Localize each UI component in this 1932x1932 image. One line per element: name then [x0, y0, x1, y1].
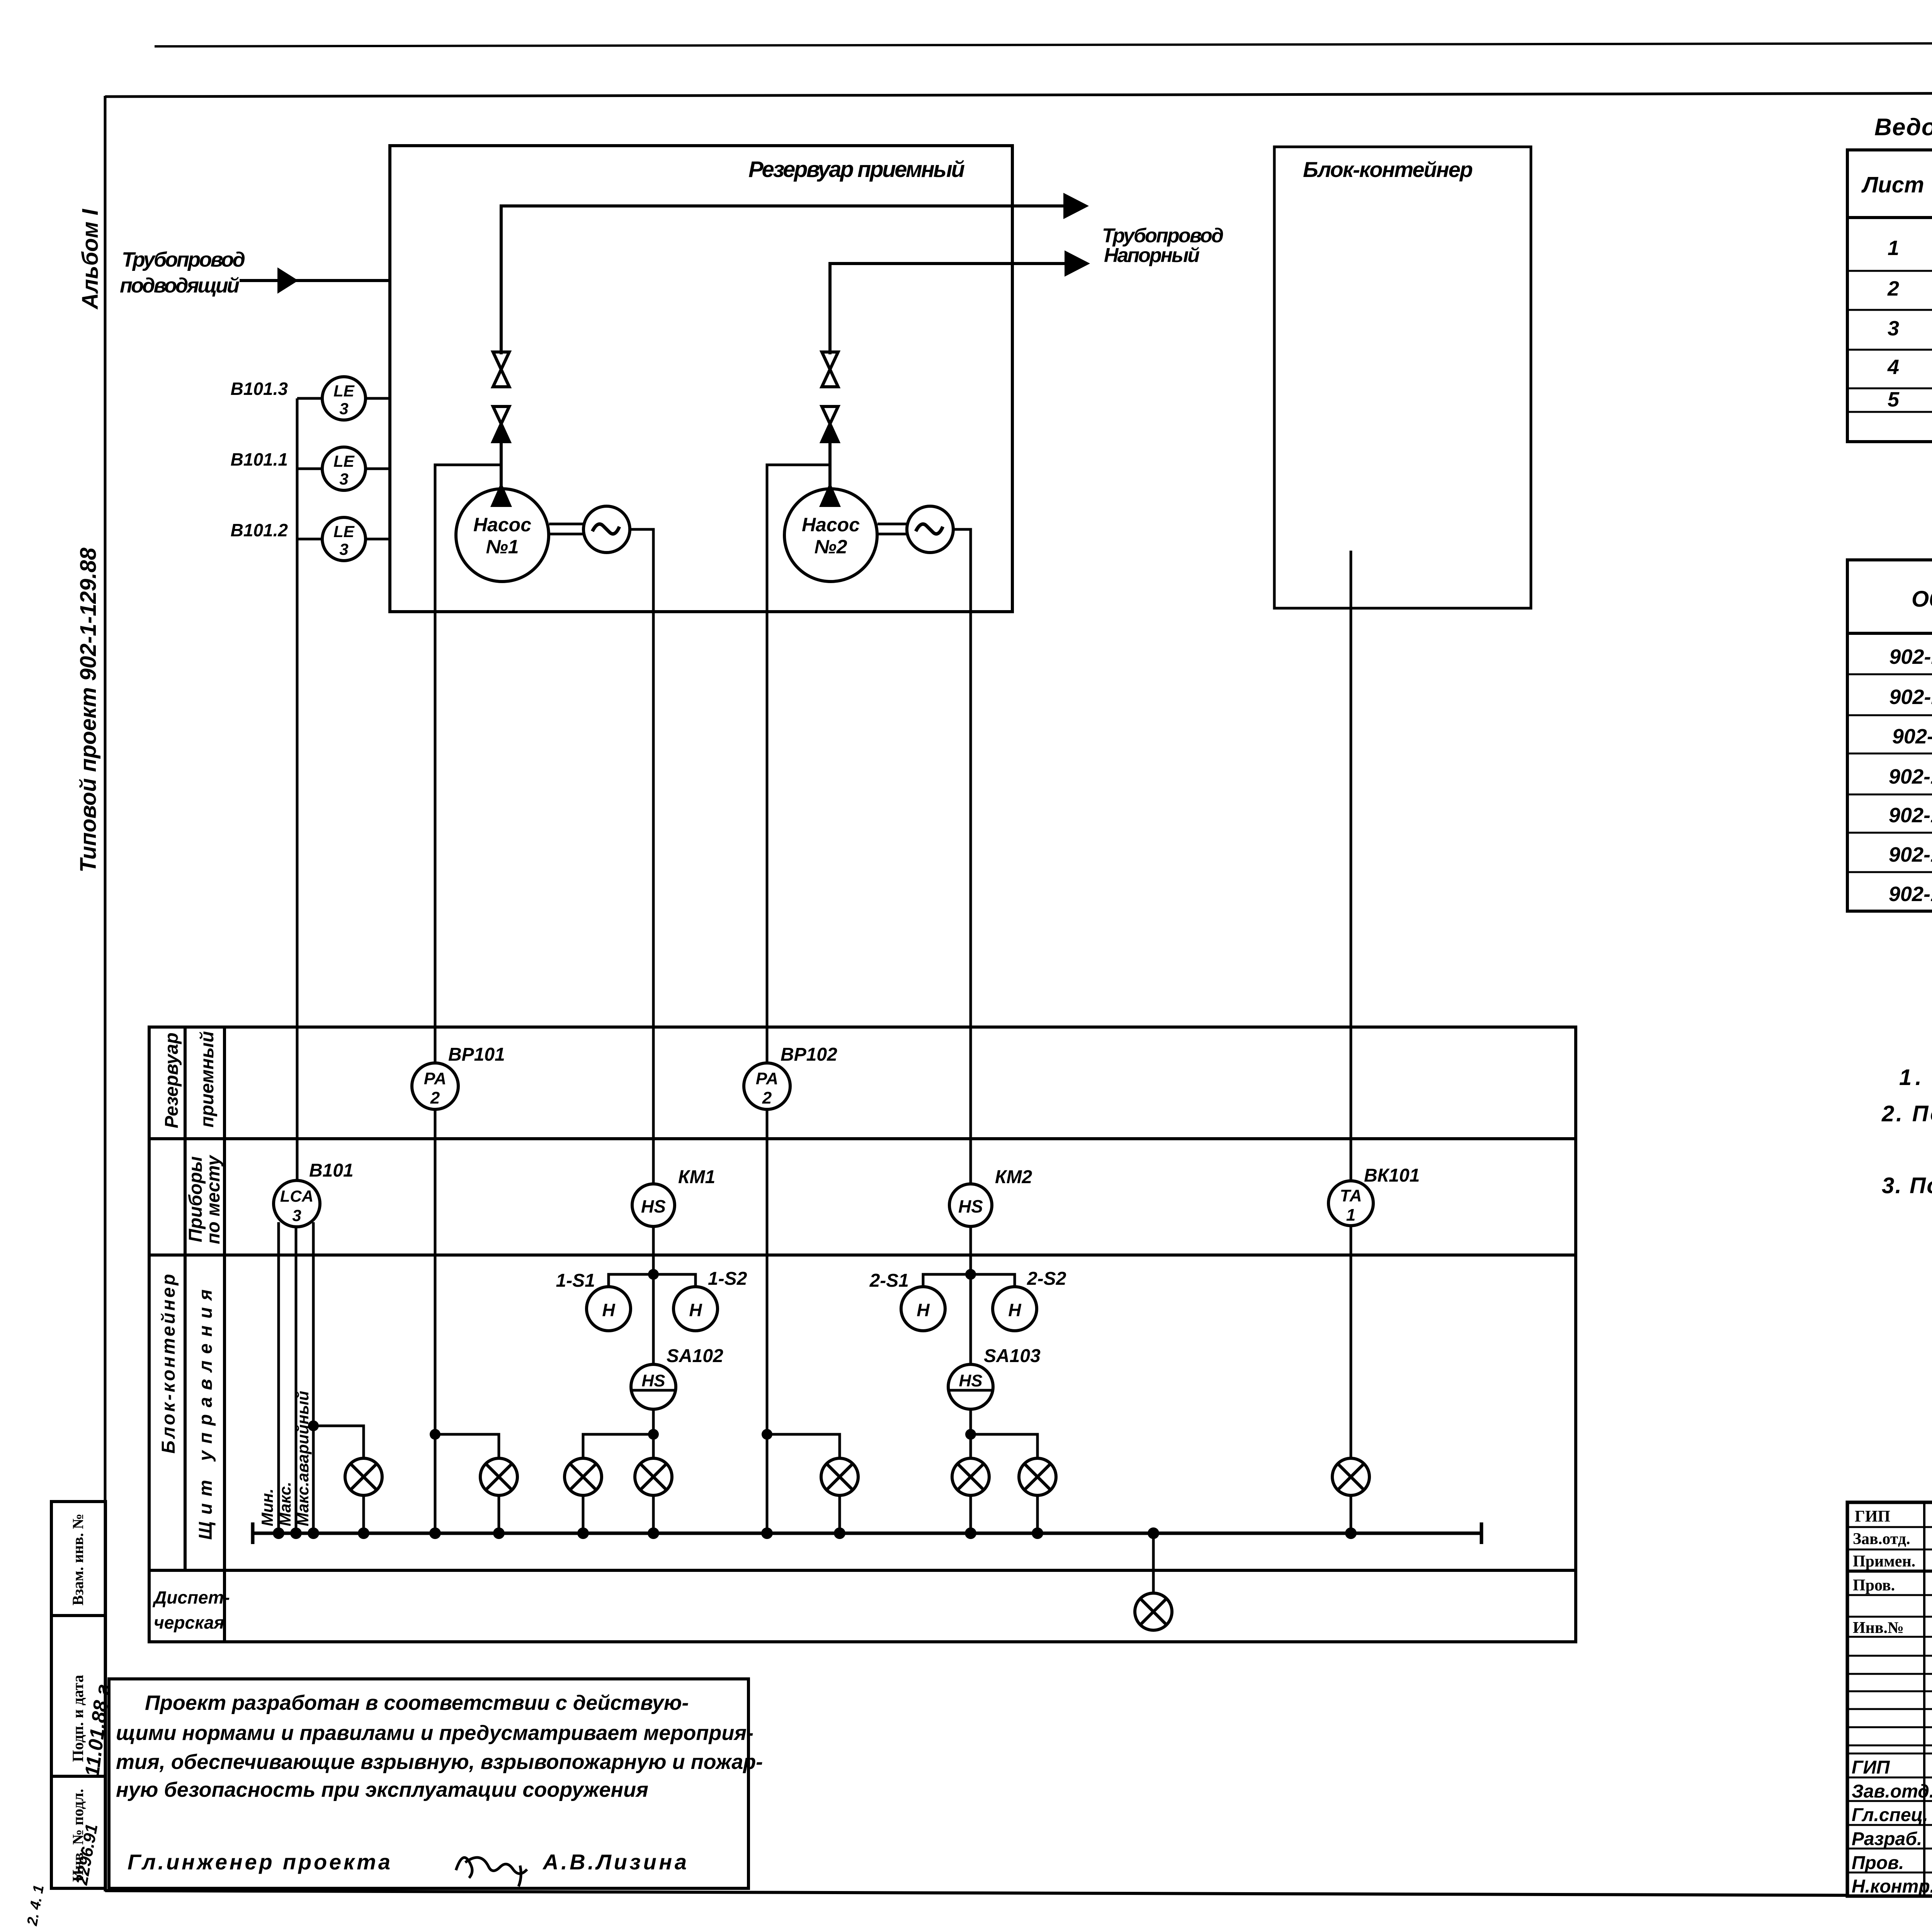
pump 2 inlet arrowhead [819, 482, 841, 507]
lamp 5 branch wire [767, 1434, 840, 1458]
svg-text:черская: черская [154, 1612, 224, 1633]
junction on wire Макс.аварийный [308, 1420, 319, 1431]
svg-text:Напорный: Напорный [1104, 244, 1200, 267]
svg-text:SA102: SA102 [667, 1346, 723, 1366]
svg-text:LCA: LCA [280, 1187, 313, 1205]
button H 2-S1 [901, 1287, 945, 1331]
lamp 8 [1332, 1458, 1369, 1495]
svg-text:приемный: приемный [197, 1031, 218, 1128]
junction on pressure 2 wire [762, 1429, 772, 1440]
bus junction x=1126 [429, 1527, 441, 1539]
note text [116, 1691, 763, 1801]
bus junction x=811 [308, 1527, 319, 1539]
svg-text:3. Позиционные обозначения К: 3. Позиционные обозначения КМ1, КМ2 даны… [1882, 1173, 1932, 1198]
pump Насос №1 [456, 489, 549, 582]
svg-text:Проект разработан в соответств: Проект разработан в соответствии с дейст… [145, 1691, 689, 1714]
hand switch HS KM1 [632, 1184, 675, 1226]
svg-text:2. Позиционные обозначения при: 2. Позиционные обозначения приборов даны… [1881, 1101, 1932, 1126]
button H 1-S1 [587, 1287, 631, 1331]
table 1 row 3 [1888, 316, 1932, 340]
level controller LCA B101 [274, 1180, 320, 1227]
svg-text:Резервуар приемный: Резервуар приемный [748, 157, 965, 182]
svg-text:№1: №1 [486, 536, 519, 558]
signature row ГИП [1852, 1757, 1932, 1778]
svg-text:Зав.отд.: Зав.отд. [1853, 1530, 1910, 1548]
svg-text:3: 3 [339, 400, 348, 418]
LCA output wire Макс [295, 1227, 298, 1533]
motor M2 [907, 506, 953, 553]
pipe segment into pump 1 [500, 442, 503, 489]
wire pressure 2 to bus [766, 1109, 769, 1533]
hand switch HS KM2 [949, 1184, 992, 1226]
wire TA1 to lamp [1350, 1226, 1352, 1458]
bus junction x=2685 [1032, 1527, 1043, 1539]
svg-text:3: 3 [339, 540, 348, 558]
block container box Блок-контейнер [1274, 147, 1531, 608]
button H 2-S2 [993, 1287, 1037, 1331]
table 2 row 6 [1889, 842, 1932, 866]
dispatcher lamp [1135, 1593, 1172, 1630]
svg-text:Пров.: Пров. [1852, 1853, 1904, 1873]
buttons branch 1 [609, 1274, 696, 1287]
svg-text:2: 2 [1887, 277, 1899, 300]
bus junction x=766 [290, 1527, 302, 1539]
svg-text:Гл.инженер проекта: Гл.инженер проекта [128, 1850, 390, 1874]
svg-text:Насос: Насос [802, 514, 860, 536]
bus junction x=2512 [965, 1527, 976, 1539]
bus junction x=3496 [1345, 1527, 1357, 1539]
svg-text:902-1-129-88-А.ТД3: 902-1-129-88-А.ТД3 [1889, 843, 1932, 866]
signature row Н.контр. [1852, 1876, 1932, 1897]
svg-text:В101.2: В101.2 [231, 520, 288, 540]
lamp 2 branch wire [435, 1434, 499, 1458]
svg-text:Мин.: Мин. [258, 1488, 276, 1526]
svg-text:Н: Н [602, 1300, 615, 1320]
wire KM1 down [652, 1226, 655, 1364]
level sensor LE B101.2 [297, 517, 390, 561]
buttons branch 2 [923, 1274, 1015, 1287]
svg-text:Диспет-: Диспет- [152, 1587, 230, 1607]
bus junction x=1691 [648, 1527, 659, 1539]
lamp 6 wire to bus [969, 1495, 972, 1533]
svg-text:№2: №2 [814, 536, 847, 558]
bus junction x=2173 [834, 1527, 845, 1539]
outlet pipe 2 arrowhead [1065, 250, 1090, 277]
svg-text:Лист: Лист [1861, 172, 1924, 197]
svg-text:1. Номера позиций даны по: 1. Номера позиций даны по 902-1-129. 88-… [1899, 1065, 1932, 1090]
pressure gauge PA2 ВР101 [412, 1063, 458, 1109]
table 2 Ведомость прилагаемых документов grid [1847, 560, 1932, 911]
svg-text:902-1-129-88-А.ТД2: 902-1-129-88-А.ТД2 [1889, 804, 1932, 827]
svg-text:Примен.: Примен. [1853, 1553, 1915, 1570]
svg-text:КМ1: КМ1 [678, 1167, 715, 1187]
block container signal wire [1350, 551, 1352, 1027]
svg-text:2-S1: 2-S1 [869, 1270, 909, 1291]
pressure gauge PA2 ВР102 [744, 1063, 790, 1109]
svg-text:4: 4 [1887, 355, 1899, 379]
wire motor 2 channel [969, 1027, 972, 1184]
svg-text:Инв.№: Инв.№ [1853, 1619, 1904, 1637]
chief engineer row [128, 1850, 687, 1886]
svg-text:2: 2 [430, 1088, 440, 1107]
location band frame [149, 1027, 1576, 1642]
svg-text:LE: LE [333, 382, 355, 400]
lamp 5 wire to bus [838, 1495, 841, 1533]
outlet pipe 1 arrowhead [1063, 193, 1089, 219]
svg-text:тия, обеспечивающие взрывную,: тия, обеспечивающие взрывную, взрывопожа… [116, 1750, 763, 1774]
table 1 row 5 [1888, 387, 1932, 411]
svg-text:ГИП: ГИП [1855, 1508, 1890, 1526]
svg-text:Макс.аварийный: Макс.аварийный [294, 1391, 312, 1526]
pressure tap wire pump 2 [767, 465, 830, 1027]
svg-text:Блок-контейнер: Блок-контейнер [1303, 157, 1473, 182]
lamp 6 [952, 1458, 989, 1495]
gate valve on pipe 1 [493, 352, 509, 387]
svg-text:HS: HS [958, 1196, 983, 1216]
bus junction x=721 [273, 1527, 284, 1539]
svg-text:902-1-129-88-А.С01: 902-1-129-88-А.С01 [1889, 645, 1932, 668]
svg-text:Альбом I: Альбом I [78, 208, 103, 310]
lamp 4 [635, 1458, 672, 1495]
svg-text:А.В.Лизина: А.В.Лизина [542, 1850, 687, 1874]
svg-text:Н: Н [1008, 1300, 1021, 1320]
wire motor 1 channel [652, 1027, 655, 1184]
level sensor LE B101.1 [297, 447, 390, 490]
level sensor riser wire [296, 398, 299, 1027]
motor M1 [583, 506, 630, 553]
svg-text:ГИП: ГИП [1852, 1757, 1890, 1778]
svg-text:Насос: Насос [473, 514, 531, 536]
svg-text:Макс.: Макс. [276, 1482, 294, 1526]
inlet pipe wire [240, 279, 390, 282]
bus junction x=1985 [761, 1527, 773, 1539]
title block left column verticals [1924, 1502, 1932, 1896]
svg-text:LE: LE [333, 522, 355, 541]
svg-text:Н: Н [689, 1300, 702, 1320]
table 2 row 5 [1889, 803, 1932, 827]
lamp 2 wire to bus [498, 1495, 500, 1533]
table 2 row 4 [1889, 764, 1932, 788]
svg-text:ВК101: ВК101 [1364, 1165, 1420, 1186]
svg-text:1-S1: 1-S1 [556, 1270, 595, 1291]
sheet top trim line [155, 43, 1932, 46]
table 2 row 2 [1889, 684, 1932, 709]
pressure tap wire pump 1 [435, 465, 501, 1027]
svg-text:ВР102: ВР102 [781, 1044, 837, 1065]
svg-text:Обозначение: Обозначение [1912, 587, 1932, 612]
svg-text:902-1-129-88-А.ТД1: 902-1-129-88-А.ТД1 [1889, 765, 1932, 788]
table 1 row 1 [1888, 235, 1932, 260]
lamp 8 wire to bus [1350, 1495, 1352, 1533]
title block upper rows [1847, 1527, 1932, 1745]
motor 2 signal wire [953, 529, 971, 1027]
svg-text:2: 2 [762, 1088, 772, 1107]
svg-text:3: 3 [339, 470, 348, 488]
wire pressure 1 in band [434, 1027, 437, 1063]
table 2 row 1 [1889, 644, 1932, 668]
frame top edge [105, 92, 1932, 97]
lamp 5 [821, 1458, 858, 1495]
svg-text:3: 3 [292, 1206, 301, 1225]
svg-text:Н.контр.: Н.контр. [1852, 1876, 1932, 1897]
svg-text:1: 1 [1888, 236, 1899, 260]
frame left edge [104, 96, 107, 1891]
svg-text:В101: В101 [309, 1160, 354, 1181]
svg-text:5: 5 [1888, 388, 1900, 411]
wire SA102 to lamp [652, 1409, 655, 1458]
signature row Пров. [1852, 1853, 1932, 1873]
bus junction x=941 [358, 1527, 369, 1539]
table 2 row 3 [1892, 724, 1932, 748]
svg-text:Типовой проект 902-1-129.88: Типовой проект 902-1-129.88 [76, 548, 101, 872]
margin stamp boxes [51, 1502, 105, 1888]
row label Резервуар приемный [162, 1031, 218, 1128]
lamp 7 wire to bus [1036, 1495, 1039, 1533]
wire pressure 2 in band [766, 1027, 769, 1063]
svg-text:2-S2: 2-S2 [1027, 1269, 1066, 1289]
junction on pressure 1 wire [430, 1429, 440, 1440]
svg-text:902-1-129-88-А.ВМ: 902-1-129-88-А.ВМ [1892, 725, 1932, 748]
row label Приборы по месту [185, 1155, 224, 1244]
junction under SA102 [648, 1429, 659, 1440]
gate valve on pipe 2 [822, 352, 838, 387]
tank Резервуар приемный [390, 146, 1012, 612]
svg-text:HS: HS [641, 1196, 666, 1216]
temperature sensor TA1 ВК101 [1328, 1181, 1373, 1226]
table 1 row 4 [1887, 354, 1932, 379]
svg-text:ТА: ТА [1340, 1186, 1362, 1205]
svg-text:1-S2: 1-S2 [708, 1269, 747, 1289]
check valve on pipe 2 [822, 406, 838, 442]
junction KM1 buttons [648, 1269, 659, 1280]
svg-text:щими нормами и правилами и пре: щими нормами и правилами и предусматрива… [116, 1721, 753, 1745]
svg-text:В101.3: В101.3 [231, 379, 288, 399]
svg-text:В101.1: В101.1 [231, 449, 288, 469]
shaft pump2-motor2 [878, 524, 908, 534]
svg-text:по месту: по месту [203, 1155, 224, 1244]
svg-text:HS: HS [959, 1371, 982, 1390]
svg-text:Н: Н [917, 1300, 930, 1320]
lamp 1 wire to bus [362, 1495, 365, 1533]
svg-text:Ведомость рабочих чертежей осн: Ведомость рабочих чертежей основного ком… [1874, 114, 1932, 141]
margin handwriting dates [24, 1683, 114, 1927]
selector switch SA102 [631, 1364, 676, 1409]
svg-text:3: 3 [1888, 317, 1899, 340]
wire pressure 1 to bus [434, 1109, 437, 1533]
table 2 header [1912, 585, 1932, 612]
pump 1 inlet arrowhead [490, 482, 512, 507]
svg-text:ную безопасность при эксплуат: ную безопасность при эксплуатации сооруж… [116, 1778, 648, 1801]
level sensor LE B101.3 [297, 377, 390, 420]
pipe segment into pump 2 [828, 442, 832, 489]
check valve on pipe 1 [493, 406, 509, 442]
button H 1-S2 [673, 1287, 718, 1331]
table 2 row 7 [1889, 881, 1932, 906]
wire block container channel [1350, 1027, 1352, 1181]
lamp 3 wire to bus [582, 1495, 585, 1533]
frame bottom edge [105, 1891, 1847, 1895]
bus junction x=1509 [577, 1527, 589, 1539]
lamp 1 branch wire [313, 1426, 364, 1458]
LCA output wire Мин [277, 1222, 280, 1533]
inlet pipe label Трубопровод подводящий [120, 248, 245, 297]
signature row Зав.отд. [1852, 1781, 1932, 1802]
LCA output wire Макс.аварийный [312, 1222, 315, 1533]
svg-text:КМ2: КМ2 [995, 1167, 1032, 1187]
motor 1 signal wire [630, 529, 653, 1027]
svg-text:Гл.спец.: Гл.спец. [1852, 1805, 1928, 1825]
svg-text:SA103: SA103 [984, 1346, 1041, 1366]
svg-text:Разраб.: Разраб. [1852, 1829, 1922, 1849]
outlet pipe pump2 (напорный) [830, 264, 1083, 354]
selector switch SA103 [948, 1364, 993, 1409]
svg-text:ВР101: ВР101 [448, 1044, 505, 1065]
pump Насос №2 [784, 489, 877, 582]
svg-text:подводящий: подводящий [120, 274, 240, 297]
svg-text:Пров.: Пров. [1853, 1577, 1895, 1594]
table 1 Ведомость рабочих чертежей grid [1847, 150, 1932, 442]
wire KM2 down [969, 1226, 972, 1364]
junction under SA103 [965, 1429, 976, 1440]
signal bus [253, 1522, 1481, 1544]
lamp 1 [345, 1458, 382, 1495]
row label Диспетчерская [152, 1587, 230, 1633]
lamp 7 branch wire [971, 1434, 1037, 1458]
svg-text:Зав.отд.: Зав.отд. [1852, 1781, 1932, 1802]
svg-text:Резервуар: Резервуар [162, 1032, 182, 1128]
svg-text:902-1-129-88-А.ТД4: 902-1-129-88-А.ТД4 [1889, 883, 1932, 906]
lamp 2 [480, 1458, 517, 1495]
junction KM2 buttons [965, 1269, 976, 1280]
svg-text:РА: РА [756, 1069, 778, 1088]
svg-text:Трубопровод: Трубопровод [122, 248, 245, 271]
signature rows grid [1847, 1753, 1932, 1872]
upper labels [1853, 1508, 1915, 1637]
lamp 7 [1019, 1458, 1056, 1495]
dispatcher lamp wire [1152, 1533, 1155, 1593]
svg-text:HS: HS [641, 1371, 665, 1390]
svg-text:Взам. инв. №: Взам. инв. № [69, 1514, 87, 1605]
signature row Разраб. [1852, 1829, 1932, 1849]
table 1 header [1861, 171, 1932, 198]
outlet pipe pump1 (напорный) [501, 206, 1082, 354]
lamp 3 branch wire [583, 1434, 653, 1458]
svg-text:902-1-129-88-А.С02: 902-1-129-88-А.С02 [1889, 685, 1932, 709]
bus junction x=2985 [1148, 1527, 1159, 1539]
svg-text:РА: РА [424, 1069, 446, 1088]
svg-text:1: 1 [1346, 1206, 1355, 1225]
svg-text:Трубопровод: Трубопровод [1102, 224, 1224, 247]
signature row Гл.спец. [1852, 1805, 1932, 1825]
inlet pipe arrowhead [277, 267, 298, 294]
bus junction x=1291 [493, 1527, 505, 1539]
outlet label Трубопровод напорный [1102, 224, 1224, 267]
shaft pump1-motor1 [549, 524, 584, 534]
bottom-left note box [109, 1679, 748, 1888]
wire SA103 to lamp [969, 1409, 972, 1458]
table 1 row 2 [1887, 276, 1932, 300]
lamp 3 [565, 1458, 602, 1495]
wire level channel [296, 1027, 299, 1180]
title block mid thick line [1847, 1570, 1932, 1573]
title block outer frame [1847, 1502, 1932, 1896]
svg-text:LE: LE [333, 452, 355, 470]
lamp 4 wire to bus [652, 1495, 655, 1533]
